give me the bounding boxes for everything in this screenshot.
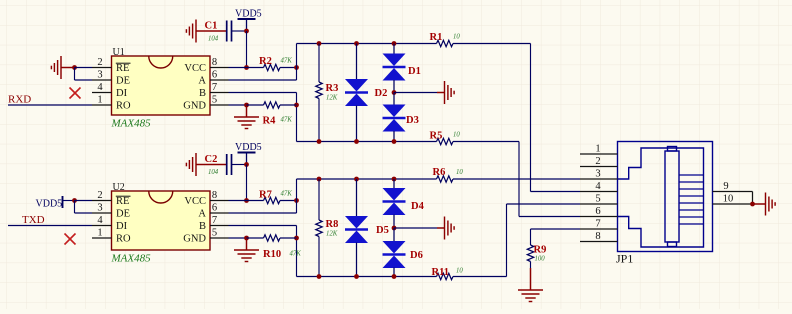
- resistor R8: [318, 179, 320, 220]
- wire pin 9 down to pin 10: [752, 192, 754, 205]
- wire B rail (bottom): [297, 141, 437, 143]
- svg-text:D1: D1: [408, 66, 421, 77]
- wire D6 bottom lead: [393, 268, 395, 277]
- ground (right of JP1): [766, 193, 776, 216]
- svg-text:RO: RO: [116, 101, 131, 112]
- svg-text:10: 10: [456, 169, 463, 176]
- svg-text:6: 6: [595, 206, 600, 217]
- svg-text:5: 5: [595, 194, 600, 205]
- JP1 pin 2 stub: [580, 166, 618, 168]
- wire D1 top lead: [393, 44, 395, 55]
- node VCC junction: [244, 65, 249, 70]
- svg-text:6: 6: [212, 203, 217, 214]
- wire D4 top lead: [393, 179, 395, 189]
- svg-text:R8: R8: [326, 219, 339, 230]
- U2 pin 5 stub: [210, 237, 229, 239]
- wire vertical B to bottom rail: [296, 93, 298, 142]
- resistor R3: [318, 44, 320, 83]
- JP1 pin 9 stub: [713, 191, 753, 193]
- wire D4 to mid node: [393, 215, 395, 229]
- svg-text:VDD5: VDD5: [36, 199, 63, 210]
- svg-text:DI: DI: [116, 88, 128, 99]
- svg-text:1: 1: [97, 95, 102, 106]
- ground (mid, channel 2): [445, 217, 455, 240]
- ground (below U2 pin 5): [246, 238, 248, 250]
- JP1 slot top tab: [668, 147, 677, 152]
- resistor R6: [437, 176, 454, 182]
- svg-text:10: 10: [456, 268, 463, 275]
- capacitor C2: [227, 154, 232, 175]
- ground (left of C2): [186, 153, 196, 176]
- wire D5 top lead: [356, 179, 358, 217]
- svg-text:104: 104: [208, 169, 219, 176]
- diode D3 (TVS): [383, 105, 406, 132]
- svg-text:7: 7: [212, 82, 217, 93]
- wire junction to ground: [753, 203, 766, 205]
- wire U2 pin 7 (B) to corner: [229, 225, 297, 227]
- U2 pin 8 stub: [210, 200, 229, 202]
- ground (left of C1): [186, 20, 196, 43]
- svg-text:4: 4: [595, 181, 601, 192]
- wire RXD to U1 pin 1: [8, 104, 92, 106]
- U1 pin 5 stub: [210, 104, 229, 106]
- wire JP1 pin 7 to R9: [531, 228, 581, 230]
- svg-text:R4: R4: [263, 116, 277, 127]
- svg-text:5: 5: [212, 228, 217, 239]
- node D2 top: [354, 41, 359, 46]
- svg-text:TXD: TXD: [22, 214, 45, 226]
- wire mid node to ground: [394, 92, 437, 94]
- JP1 pin 10 stub: [713, 203, 753, 205]
- wire junction to U2 pin 2: [75, 200, 93, 202]
- wire mid node to D6: [393, 228, 395, 242]
- svg-text:8: 8: [212, 190, 217, 201]
- wire U1 pin 6 (A) to corner: [229, 79, 297, 81]
- wire A rail ch2: [297, 178, 437, 180]
- node VDD5/C1 junction: [244, 29, 249, 34]
- wire ground to C2: [196, 164, 227, 166]
- svg-text:8: 8: [212, 57, 217, 68]
- svg-text:3: 3: [595, 169, 600, 180]
- wire D3 bottom lead: [393, 131, 395, 142]
- wire A rail (top): [297, 43, 437, 45]
- svg-text:VCC: VCC: [184, 63, 206, 74]
- svg-text:DE: DE: [116, 209, 130, 220]
- svg-text:104: 104: [208, 36, 219, 43]
- U1 pin 7 stub: [210, 92, 229, 94]
- wire U1 pin 8 to VDD5 node: [229, 67, 247, 69]
- node VDD5/C2 junction: [244, 162, 249, 167]
- diode D1 (TVS): [383, 54, 406, 81]
- svg-text:R6: R6: [433, 167, 446, 178]
- op-amp U2 body (MAX485): [112, 191, 211, 250]
- svg-text:VCC: VCC: [184, 196, 206, 207]
- svg-text:2: 2: [97, 190, 102, 201]
- node R3 bottom: [317, 139, 322, 144]
- diode D2 (TVS): [345, 79, 368, 106]
- node D2 bottom: [354, 139, 359, 144]
- node D5 top: [354, 177, 359, 182]
- resistor R7: [247, 200, 264, 202]
- node D4 top: [392, 177, 397, 182]
- node D1 top: [392, 41, 397, 46]
- svg-text:100: 100: [535, 256, 546, 263]
- svg-text:R3: R3: [326, 83, 339, 94]
- wire U1 pin 5 to ground node: [229, 104, 247, 106]
- wire D5 bottom lead: [356, 243, 358, 277]
- svg-text:DI: DI: [116, 221, 128, 232]
- U1 pin 2 stub: [92, 67, 112, 69]
- wire vertical A to top rail ch2: [296, 179, 298, 213]
- diode D5 (TVS): [345, 216, 368, 243]
- resistor R11: [437, 273, 454, 279]
- svg-text:RO: RO: [116, 234, 131, 245]
- op-amp U1 body (MAX485): [112, 56, 211, 115]
- wire R11 up to JP1 pin 5: [506, 204, 508, 277]
- svg-text:A: A: [198, 209, 206, 220]
- node pin 9/10 junction: [750, 202, 755, 207]
- svg-text:47K: 47K: [281, 58, 293, 65]
- resistor R10: [247, 237, 264, 239]
- node D1/D3 mid junction: [392, 90, 397, 95]
- JP1 pin 6 stub: [580, 216, 618, 218]
- wire ground to C1: [196, 30, 227, 32]
- JP1 inner jack outline: [618, 148, 704, 247]
- U2 pin 3 stub: [92, 212, 112, 214]
- svg-text:2: 2: [97, 57, 102, 68]
- wire VDD5 down to VCC line: [246, 31, 248, 68]
- svg-text:4: 4: [97, 82, 103, 93]
- node D5 bottom: [354, 274, 359, 279]
- U1 pin 3 stub: [92, 79, 112, 81]
- resistor R2: [247, 67, 264, 69]
- svg-text:7: 7: [595, 219, 600, 230]
- svg-text:U2: U2: [113, 182, 125, 193]
- node R3 top: [317, 41, 322, 46]
- svg-text:VDD5: VDD5: [235, 142, 262, 153]
- svg-text:JP1: JP1: [616, 252, 633, 266]
- wire vertical B to bottom rail ch2: [296, 226, 298, 277]
- wire D2 top lead: [356, 44, 358, 80]
- no-connect X on U2 pin 1: [65, 234, 76, 245]
- wire B rail ch2: [297, 276, 437, 278]
- U2 pin 6 stub: [210, 212, 229, 214]
- svg-text:12K: 12K: [326, 95, 338, 102]
- ground (mid, channel 1): [445, 81, 455, 104]
- U2 pin 1 stub: [92, 237, 112, 239]
- node D3 bottom: [392, 139, 397, 144]
- wire junction to U1 pin 2: [75, 67, 93, 69]
- svg-text:DE: DE: [116, 76, 130, 87]
- resistor R9: [530, 229, 532, 245]
- svg-text:1: 1: [97, 228, 102, 239]
- node GND junction: [244, 103, 249, 108]
- JP1 pin 1 stub: [580, 153, 618, 155]
- svg-text:RE: RE: [116, 196, 129, 207]
- power VDD5 (left of U2): [62, 196, 64, 208]
- ground (below R9): [530, 268, 532, 290]
- svg-text:10: 10: [453, 132, 460, 139]
- resistor R4: [247, 104, 264, 106]
- svg-text:GND: GND: [183, 234, 206, 245]
- svg-text:GND: GND: [183, 101, 206, 112]
- svg-text:U1: U1: [113, 47, 125, 58]
- svg-text:1: 1: [595, 144, 600, 155]
- svg-text:D6: D6: [410, 250, 423, 261]
- svg-text:R7: R7: [259, 190, 272, 201]
- ground (below U1 pin 5): [246, 105, 248, 117]
- node R8 bottom: [317, 274, 322, 279]
- svg-text:D3: D3: [406, 115, 419, 126]
- U2 pin 4 stub: [92, 225, 112, 227]
- JP1 pin 8 stub: [580, 241, 618, 243]
- wire D1 to mid node: [393, 80, 395, 93]
- wire VDD5 down to U2 VCC line: [246, 165, 248, 201]
- node R4 right junction: [294, 103, 299, 108]
- svg-text:RE: RE: [116, 63, 129, 74]
- node D6 bottom: [392, 274, 397, 279]
- U2 pin 7 stub: [210, 225, 229, 227]
- U1 pin 4 stub: [92, 92, 112, 94]
- node U2 RE/DE junction: [72, 198, 77, 203]
- wire mid node to ground ch2: [394, 227, 437, 229]
- power VDD5 (top, channel 1): [238, 18, 256, 20]
- svg-text:R11: R11: [432, 267, 450, 278]
- svg-text:C1: C1: [205, 21, 218, 32]
- svg-text:R1: R1: [430, 32, 443, 43]
- JP1 pin 4 stub: [580, 191, 618, 193]
- connector JP1 outer body: [618, 142, 713, 252]
- svg-text:R5: R5: [430, 131, 443, 142]
- wire TXD to U2 pin 4: [8, 225, 92, 227]
- svg-text:10: 10: [723, 194, 734, 205]
- wire R5 down to JP1 pin 6: [518, 142, 520, 217]
- JP1 centre slot: [665, 151, 679, 242]
- svg-text:R10: R10: [263, 249, 281, 260]
- JP1 contact fingers: [679, 175, 704, 224]
- svg-text:D4: D4: [411, 201, 425, 212]
- node U2 VCC junction: [244, 198, 249, 203]
- node R7 right junction: [294, 198, 299, 203]
- wire C1 to VDD5 node: [232, 30, 247, 32]
- svg-text:47K: 47K: [290, 251, 302, 258]
- svg-text:47K: 47K: [281, 117, 293, 124]
- power VDD5 (top, channel 2): [238, 152, 256, 154]
- U1 pin 6 stub: [210, 79, 229, 81]
- svg-text:8: 8: [595, 231, 600, 242]
- wire U2 pin 6 (A) to corner: [229, 212, 297, 214]
- svg-text:B: B: [199, 88, 206, 99]
- wire D2 bottom lead: [356, 106, 358, 142]
- svg-text:4: 4: [97, 215, 103, 226]
- diode D4 (TVS): [383, 188, 406, 215]
- svg-text:D5: D5: [376, 225, 389, 236]
- svg-text:7: 7: [212, 215, 217, 226]
- wire mid node to D3: [393, 93, 395, 106]
- wire junction down to pin 3: [74, 68, 76, 81]
- svg-text:RXD: RXD: [8, 94, 31, 106]
- wire U2 pin 5 to ground node: [229, 237, 247, 239]
- no-connect X on U1 pin 4: [70, 88, 81, 99]
- svg-text:12K: 12K: [326, 231, 338, 238]
- resistor R5: [437, 138, 454, 144]
- svg-text:3: 3: [97, 70, 102, 81]
- node RE/DE junction: [72, 65, 77, 70]
- resistor R1: [437, 40, 454, 46]
- svg-text:C2: C2: [205, 154, 218, 165]
- svg-text:6: 6: [212, 70, 217, 81]
- wire ground to RE junction: [61, 67, 75, 69]
- JP1 pin 7 stub: [580, 228, 618, 230]
- JP1 slot bottom tab: [668, 242, 677, 247]
- svg-text:5: 5: [212, 95, 217, 106]
- svg-text:B: B: [199, 221, 206, 232]
- wire C2 to VDD5 node: [232, 164, 247, 166]
- svg-text:MAX485: MAX485: [111, 118, 152, 130]
- node R2 right junction: [294, 65, 299, 70]
- JP1 pin 3 stub: [580, 178, 618, 180]
- svg-text:2: 2: [595, 156, 600, 167]
- svg-text:47K: 47K: [281, 191, 293, 198]
- node R10 right junction: [294, 236, 299, 241]
- U1 pin 1 stub: [92, 104, 112, 106]
- JP1 pin 5 stub: [580, 203, 618, 205]
- svg-text:D2: D2: [375, 88, 388, 99]
- wire junction down to U2 pin 3: [74, 201, 76, 214]
- svg-text:10: 10: [453, 34, 460, 41]
- svg-text:9: 9: [723, 181, 728, 192]
- node R8 top: [317, 177, 322, 182]
- U1 pin 8 stub: [210, 67, 229, 69]
- wire U2 pin 8 to VDD5 node: [229, 200, 247, 202]
- node D4/D6 mid junction: [392, 226, 397, 231]
- svg-text:MAX485: MAX485: [111, 253, 152, 265]
- wire U1 pin 7 (B) to corner: [229, 92, 297, 94]
- ground (left of U1, ties RE/DE low): [51, 56, 61, 79]
- wire R1 down to JP1 pin 4: [530, 44, 532, 192]
- wire vertical A to top rail: [296, 44, 298, 81]
- svg-text:VDD5: VDD5: [235, 9, 262, 20]
- diode D6 (TVS): [383, 241, 406, 268]
- svg-text:R9: R9: [534, 245, 547, 256]
- svg-text:R2: R2: [259, 56, 272, 67]
- U2 pin 2 stub: [92, 200, 112, 202]
- svg-text:A: A: [198, 76, 206, 87]
- capacitor C1: [227, 21, 232, 42]
- svg-text:3: 3: [97, 203, 102, 214]
- node U2 GND junction: [244, 236, 249, 241]
